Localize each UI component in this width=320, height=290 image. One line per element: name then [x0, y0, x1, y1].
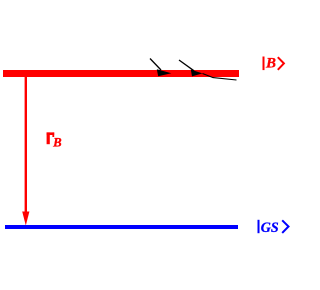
red decay arrowhead	[22, 212, 29, 226]
Gamma glyph drawn: stem + top bar	[47, 132, 50, 144]
excited level |B> (red horizontal line)	[3, 70, 239, 77]
svg-text:B: B	[52, 136, 62, 150]
label Gamma_B	[47, 132, 63, 149]
red decay arrow shaft	[25, 77, 27, 213]
black decay scribble: stroke 2 with arrowhead	[179, 60, 202, 76]
black decay scribble: stroke 1 with arrowhead	[150, 59, 171, 77]
svg-text:B: B	[265, 55, 276, 71]
svg-text:GS: GS	[261, 219, 279, 236]
black decay scribble: trailing tail under the line	[203, 74, 237, 81]
label |GS>	[258, 219, 289, 236]
label |B>	[263, 55, 284, 71]
ground level |GS> (blue horizontal line)	[5, 225, 238, 229]
